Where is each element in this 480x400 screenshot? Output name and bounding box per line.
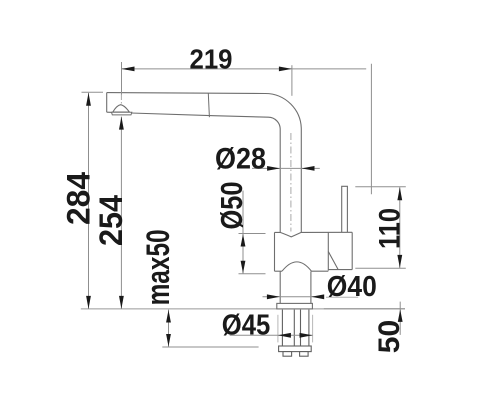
dim 254 line	[120, 117, 122, 309]
body outline	[275, 232, 353, 271]
label O40 underline	[326, 296, 358, 298]
dim O45 arrow left	[278, 333, 291, 338]
dim 254 arrow bottom	[119, 296, 124, 309]
body shoulder arch	[282, 262, 312, 271]
dim 219 line	[122, 68, 367, 70]
dim 219 extension line right (pipe axis)	[291, 65, 293, 96]
handle lever diagonal	[328, 252, 338, 270]
dim 110 arrow bottom	[397, 255, 402, 268]
dim 284 arrow bottom	[86, 296, 91, 309]
dim max50 arrow bottom	[166, 334, 171, 347]
dim 219 arrow left	[122, 67, 135, 72]
svg-text:Ø28: Ø28	[215, 142, 266, 175]
dim O50 line	[242, 191, 244, 274]
dim 110 bottom extension line	[355, 267, 406, 269]
dim O50 bottom extension line	[239, 273, 266, 275]
handle block right edge	[351, 232, 353, 269]
dim O28 arrow right	[302, 166, 315, 171]
svg-text:219: 219	[190, 44, 233, 75]
svg-text:Ø45: Ø45	[222, 310, 270, 342]
dim O28 line	[252, 167, 320, 169]
spout horizontal tube outline	[107, 93, 302, 233]
aerator bar	[112, 112, 132, 115]
pipe centerline (dash-dot)	[290, 133, 292, 232]
max50 bottom limit line	[162, 346, 258, 348]
base flange	[277, 303, 313, 309]
dim O45 line	[230, 334, 313, 336]
hose foot right	[300, 352, 309, 357]
mounting nut bar	[279, 346, 312, 352]
dim 50 arrow	[398, 309, 403, 322]
svg-text:max50: max50	[140, 229, 176, 305]
dim O40 line	[263, 296, 325, 298]
dim 254 arrow top	[119, 117, 124, 130]
dim O28 arrow left	[267, 166, 280, 171]
dim O40 arrow right	[311, 294, 324, 299]
wire deck surface line	[81, 308, 405, 310]
dim O50 arrow bottom	[241, 261, 246, 274]
dim O45 arrow right	[300, 333, 313, 338]
dim 50 top extension line (deck underside right)	[324, 308, 405, 310]
under-deck tube lines	[282, 310, 309, 346]
dim O50 arrow top	[241, 234, 246, 247]
dim 219 extension line left (aerator axis)	[121, 62, 123, 95]
dim 284 line	[88, 93, 90, 309]
svg-text:284: 284	[60, 172, 96, 225]
dim O45 right light extension	[312, 315, 314, 343]
dim 284 top extension line	[82, 91, 104, 93]
aerator dome	[113, 105, 130, 112]
svg-text:Ø40: Ø40	[327, 271, 377, 303]
dim 110 top extension line	[355, 186, 406, 188]
dim 50 line	[399, 302, 401, 335]
corner extension vertical right	[370, 64, 372, 195]
dim 110 arrow top	[397, 187, 402, 200]
lever stick	[342, 186, 348, 232]
dim max50 line	[168, 310, 170, 347]
dim O50 top extension line	[239, 233, 266, 235]
dim 284 arrow top	[86, 93, 91, 106]
svg-text:Ø50: Ø50	[214, 182, 249, 230]
dim O45 left light extension	[277, 315, 279, 343]
dim 110 line	[399, 187, 401, 268]
handle block bottom	[328, 269, 352, 271]
dim O40 arrow left	[267, 294, 280, 299]
dim max50 arrow top	[166, 310, 171, 323]
spout joint line	[208, 93, 209, 117]
shank below body	[279, 272, 281, 304]
dim 219 arrow right	[279, 67, 292, 72]
svg-text:254: 254	[93, 195, 129, 246]
handle joint vertical	[327, 232, 329, 270]
aerator centerline (dash-dot)	[120, 94, 122, 114]
svg-text:50: 50	[373, 320, 406, 353]
svg-text:110: 110	[374, 208, 407, 249]
hose foot left	[283, 352, 292, 357]
